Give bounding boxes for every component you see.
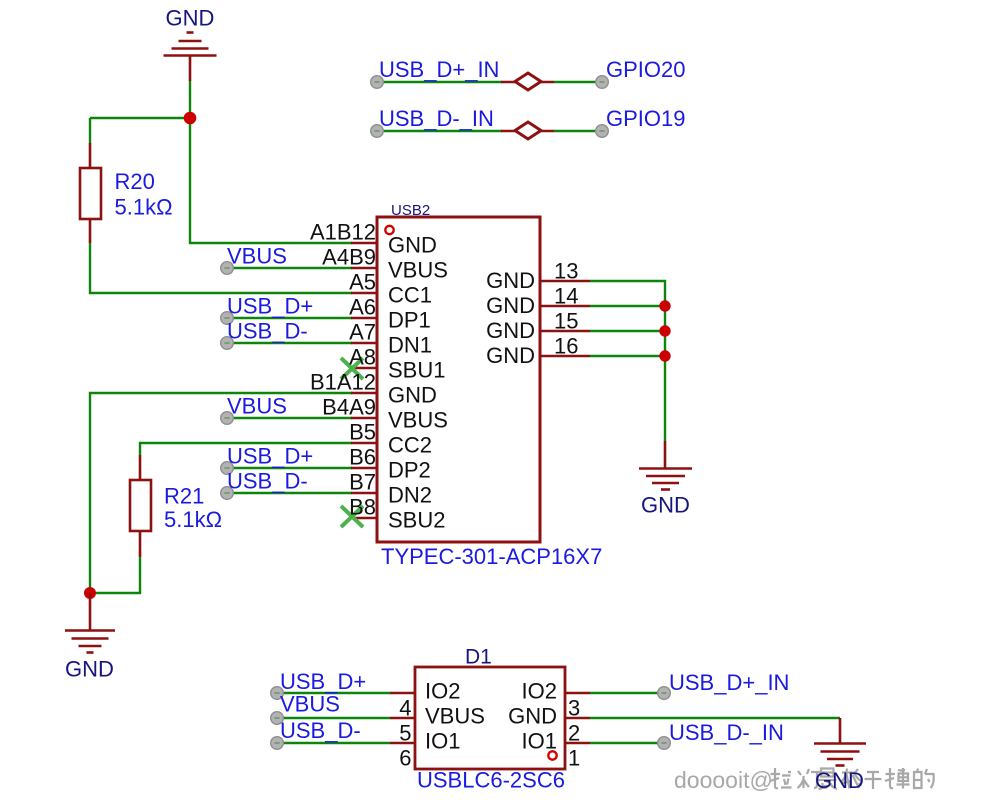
svg-text:B8: B8 bbox=[349, 495, 376, 520]
wire bbox=[590, 330, 665, 332]
svg-text:13: 13 bbox=[554, 259, 578, 284]
svg-text:USB_D+: USB_D+ bbox=[227, 294, 313, 319]
wire bbox=[227, 342, 352, 344]
pin B4A9 bbox=[351, 417, 377, 420]
ground symbol (bottom left) bbox=[65, 593, 115, 653]
svg-text:A8: A8 bbox=[349, 345, 376, 370]
pin-1 mark bbox=[548, 751, 556, 759]
pin dot bbox=[271, 687, 284, 700]
pin 16 bbox=[540, 355, 590, 358]
wire bbox=[554, 81, 602, 83]
wire bbox=[227, 492, 352, 494]
pin dot bbox=[221, 412, 234, 425]
svg-text:IO2: IO2 bbox=[522, 679, 557, 704]
pin B8 bbox=[351, 517, 377, 520]
svg-text:GND: GND bbox=[486, 268, 535, 293]
pin B6 bbox=[351, 467, 377, 470]
wire bbox=[590, 717, 840, 719]
svg-text:USB_D+_IN: USB_D+_IN bbox=[379, 57, 499, 82]
svg-text:D1: D1 bbox=[465, 646, 492, 669]
pin A1B12 bbox=[351, 242, 377, 245]
svg-text:USB_D+_IN: USB_D+_IN bbox=[669, 670, 789, 695]
resistor R20 bbox=[80, 143, 101, 243]
pin A8 bbox=[351, 367, 377, 370]
wire bbox=[590, 692, 664, 694]
pin dot bbox=[221, 337, 234, 350]
svg-text:A4B9: A4B9 bbox=[322, 245, 376, 270]
svg-text:IO2: IO2 bbox=[425, 679, 460, 704]
svg-text:dooooit@: dooooit@ bbox=[674, 767, 773, 793]
no-connect X on A8 bbox=[341, 358, 363, 379]
ground symbol (right of IC) bbox=[639, 441, 692, 490]
svg-text:USB_D-: USB_D- bbox=[227, 319, 308, 344]
wire bbox=[590, 281, 665, 441]
svg-text:DP2: DP2 bbox=[388, 458, 431, 483]
svg-text:B5: B5 bbox=[349, 420, 376, 445]
svg-text:R21: R21 bbox=[164, 484, 204, 509]
svg-text:B6: B6 bbox=[349, 445, 376, 470]
pin B5 bbox=[351, 442, 377, 445]
svg-text:IO1: IO1 bbox=[425, 729, 460, 754]
svg-text:GND: GND bbox=[641, 493, 690, 518]
wire bbox=[590, 355, 665, 357]
svg-text:GND: GND bbox=[815, 768, 864, 793]
pin dot bbox=[221, 262, 234, 275]
svg-text:GND: GND bbox=[388, 383, 437, 408]
svg-text:B4A9: B4A9 bbox=[322, 395, 376, 420]
svg-text:USB_D+: USB_D+ bbox=[280, 669, 366, 694]
svg-text:SBU2: SBU2 bbox=[388, 508, 445, 533]
svg-text:GND: GND bbox=[65, 657, 114, 682]
pin dot bbox=[371, 125, 384, 138]
no-connect X on B8 bbox=[341, 506, 363, 527]
wire bbox=[277, 692, 390, 694]
svg-text:1: 1 bbox=[568, 746, 580, 771]
svg-text:VBUS: VBUS bbox=[388, 408, 448, 433]
ground symbol (top, inverted) bbox=[164, 33, 217, 82]
svg-text:IO1: IO1 bbox=[522, 729, 557, 754]
watermark bbox=[674, 767, 773, 793]
svg-text:USB2: USB2 bbox=[391, 202, 430, 219]
拉 bbox=[770, 768, 780, 788]
net tie row 1: wire bbox=[377, 81, 502, 83]
pin A7 bbox=[351, 342, 377, 345]
svg-text:VBUS: VBUS bbox=[280, 692, 340, 717]
pin dot bbox=[596, 76, 609, 89]
pin dot bbox=[271, 737, 284, 750]
wire bbox=[189, 81, 191, 118]
掉 bbox=[885, 768, 895, 788]
svg-text:15: 15 bbox=[554, 309, 578, 334]
wire bbox=[590, 742, 664, 744]
pin 15 bbox=[540, 330, 590, 333]
pin A4B9 bbox=[351, 267, 377, 270]
pin 2 bbox=[565, 717, 590, 720]
svg-text:A7: A7 bbox=[349, 320, 376, 345]
的 bbox=[914, 769, 922, 789]
svg-text:GPIO20: GPIO20 bbox=[606, 57, 685, 82]
svg-text:TYPEC-301-ACP16X7: TYPEC-301-ACP16X7 bbox=[381, 544, 602, 569]
svg-text:USB_D-: USB_D- bbox=[280, 718, 361, 743]
wire bbox=[227, 467, 352, 469]
wire bbox=[277, 742, 390, 744]
junction bbox=[184, 112, 197, 125]
pin 6 bbox=[390, 742, 415, 745]
junction bbox=[659, 325, 670, 336]
svg-text:VBUS: VBUS bbox=[227, 244, 287, 269]
pin dot bbox=[596, 125, 609, 138]
pin A6 bbox=[351, 317, 377, 320]
wire bbox=[190, 118, 352, 243]
resistor R21 bbox=[130, 455, 151, 557]
svg-text:R20: R20 bbox=[115, 169, 155, 194]
wire bbox=[89, 118, 91, 143]
svg-text:VBUS: VBUS bbox=[227, 394, 287, 419]
svg-text:GND: GND bbox=[388, 233, 437, 258]
pin dot bbox=[371, 76, 384, 89]
svg-text:B1A12: B1A12 bbox=[310, 370, 376, 395]
net tie NT1 bbox=[501, 73, 554, 90]
wire stem to ground (bottom right) bbox=[839, 718, 842, 744]
svg-text:A1B12: A1B12 bbox=[310, 220, 376, 245]
pin A5 bbox=[351, 292, 377, 295]
svg-text:5.1kΩ: 5.1kΩ bbox=[164, 507, 222, 532]
是 bbox=[821, 769, 834, 777]
svg-text:CC1: CC1 bbox=[388, 283, 432, 308]
wire bbox=[90, 243, 352, 293]
svg-text:GPIO19: GPIO19 bbox=[606, 106, 685, 131]
pin dot bbox=[221, 487, 234, 500]
pin 4 bbox=[390, 692, 415, 695]
pin B1A12 bbox=[351, 392, 377, 395]
wire bbox=[554, 130, 602, 132]
干 bbox=[865, 772, 882, 789]
wire bbox=[590, 305, 665, 307]
svg-text:14: 14 bbox=[554, 284, 578, 309]
net tie row 2: wire bbox=[377, 130, 502, 132]
svg-text:DN2: DN2 bbox=[388, 483, 432, 508]
svg-text:DN1: DN1 bbox=[388, 333, 432, 358]
wire bbox=[140, 443, 352, 455]
wire bbox=[227, 317, 352, 319]
wire bbox=[227, 267, 352, 269]
svg-text:USB_D-_IN: USB_D-_IN bbox=[669, 720, 784, 745]
svg-text:GND: GND bbox=[508, 704, 557, 729]
wire bbox=[277, 717, 390, 719]
pin 13 bbox=[540, 280, 590, 283]
pin 3 bbox=[565, 692, 590, 695]
pin-1 mark bbox=[385, 226, 393, 234]
svg-text:B7: B7 bbox=[349, 470, 376, 495]
wire bbox=[90, 117, 190, 119]
net tie NT2 bbox=[501, 122, 554, 139]
junction bbox=[659, 350, 670, 361]
pin dot bbox=[221, 462, 234, 475]
pin 5 bbox=[390, 717, 415, 720]
pin 1 bbox=[565, 742, 590, 745]
wire bbox=[227, 417, 352, 419]
pin dot bbox=[658, 737, 671, 750]
pin dot bbox=[658, 687, 671, 700]
svg-text:USBLC6-2SC6: USBLC6-2SC6 bbox=[417, 768, 565, 793]
svg-text:A6: A6 bbox=[349, 295, 376, 320]
pin B7 bbox=[351, 492, 377, 495]
svg-text:USB_D-: USB_D- bbox=[227, 469, 308, 494]
svg-text:A5: A5 bbox=[349, 270, 376, 295]
svg-text:VBUS: VBUS bbox=[425, 704, 485, 729]
svg-text:5.1kΩ: 5.1kΩ bbox=[115, 195, 173, 220]
svg-text:USB_D-_IN: USB_D-_IN bbox=[379, 106, 494, 131]
svg-text:16: 16 bbox=[554, 334, 578, 359]
svg-text:GND: GND bbox=[166, 6, 215, 31]
svg-text:CC2: CC2 bbox=[388, 433, 432, 458]
svg-text:SBU1: SBU1 bbox=[388, 358, 445, 383]
pin dot bbox=[221, 312, 234, 325]
svg-text:3: 3 bbox=[568, 696, 580, 721]
svg-text:2: 2 bbox=[568, 721, 580, 746]
ground symbol (bottom right) bbox=[814, 744, 866, 766]
IC U1 TYPEC-301-ACP16X7 bbox=[377, 217, 540, 542]
wire bbox=[90, 393, 352, 593]
svg-text:GND: GND bbox=[486, 293, 535, 318]
svg-text:DP1: DP1 bbox=[388, 308, 431, 333]
wire bbox=[90, 557, 140, 593]
watermark CJK strokes bbox=[770, 768, 934, 789]
junction bbox=[659, 300, 670, 311]
svg-text:GND: GND bbox=[486, 318, 535, 343]
junction bbox=[84, 587, 96, 599]
pin 14 bbox=[540, 305, 590, 308]
diode array D1 USBLC6-2SC6 bbox=[415, 667, 565, 769]
svg-text:5: 5 bbox=[399, 721, 411, 746]
svg-text:GND: GND bbox=[486, 343, 535, 368]
pin dot bbox=[271, 712, 284, 725]
svg-text:USB_D+: USB_D+ bbox=[227, 444, 313, 469]
灯 bbox=[798, 769, 810, 788]
svg-text:6: 6 bbox=[399, 746, 411, 771]
svg-text:4: 4 bbox=[399, 696, 411, 721]
我 bbox=[841, 769, 853, 789]
svg-text:VBUS: VBUS bbox=[388, 258, 448, 283]
